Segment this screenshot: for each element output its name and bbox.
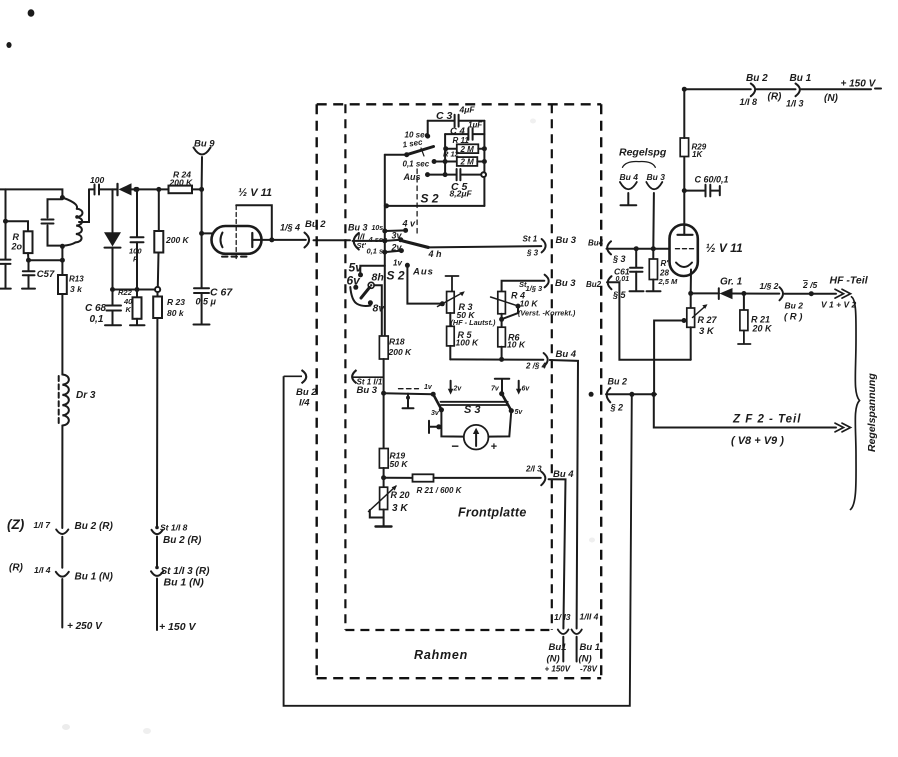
svg-text:C 68: C 68 [85,303,107,314]
svg-text:½ V 11: ½ V 11 [706,241,743,255]
svg-text:200 K: 200 K [388,347,413,357]
svg-text:2 M: 2 M [460,158,475,167]
svg-text:(N): (N) [547,654,560,665]
svg-text:R 21 / 600 K: R 21 / 600 K [417,486,463,495]
svg-text:1μF: 1μF [468,121,483,130]
svg-text:(Verst. -Kοrrekt.): (Verst. -Kοrrekt.) [518,309,576,318]
svg-text:1/§ 3: 1/§ 3 [526,284,544,293]
svg-text:C 60/0,1: C 60/0,1 [695,175,729,185]
svg-text:(Z): (Z) [7,517,25,532]
svg-text:St 1/I 8: St 1/I 8 [160,523,188,533]
svg-text:-78V: -78V [580,665,598,674]
svg-text:R 27: R 27 [698,315,718,325]
svg-text:2 /5: 2 /5 [802,280,817,290]
svg-text:1/§ 2: 1/§ 2 [760,281,779,291]
svg-text:( V8 + V9 ): ( V8 + V9 ) [731,435,784,447]
svg-text:Bu 2: Bu 2 [296,387,317,398]
svg-text:Gr. 1: Gr. 1 [720,277,743,288]
svg-text:4μF: 4μF [459,105,476,115]
svg-text:Bu 3: Bu 3 [357,385,378,396]
svg-text:0,5 μ: 0,5 μ [196,297,217,307]
svg-text:6v: 6v [347,274,362,288]
svg-text:HF -Teil: HF -Teil [830,275,869,287]
svg-text:2v: 2v [453,386,463,393]
svg-text:Bu2: Bu2 [586,280,602,289]
svg-text:Bu 1 (N): Bu 1 (N) [75,572,114,583]
svg-text:R 23: R 23 [167,297,185,307]
svg-text:§ 5: § 5 [612,290,627,300]
svg-text:3 K: 3 K [699,326,715,337]
svg-text:100: 100 [90,175,104,185]
svg-text:+ 150 V: + 150 V [159,621,196,633]
svg-text:10s: 10s [372,225,384,232]
svg-text:( R ): ( R ) [784,312,802,323]
svg-text:+: + [491,441,498,453]
svg-text:§ 3: § 3 [526,249,539,258]
svg-text:Aus: Aus [412,267,434,278]
svg-text:St 1: St 1 [523,235,538,244]
svg-text:1/§ 4: 1/§ 4 [280,223,300,233]
svg-text:1v: 1v [393,259,402,268]
svg-text:Bu 1: Bu 1 [790,73,812,84]
svg-text:(HF - Lautst.): (HF - Lautst.) [451,318,497,327]
svg-text:3v: 3v [431,410,440,417]
svg-text:C57: C57 [37,269,55,280]
svg-text:S 3: S 3 [464,404,481,416]
svg-text:C61: C61 [614,267,630,277]
svg-text:3v: 3v [392,231,403,241]
svg-text:−: − [451,439,459,454]
svg-text:10 K: 10 K [520,299,539,309]
svg-text:(N): (N) [579,654,592,665]
svg-text:0,01: 0,01 [616,276,630,283]
svg-text:Bu 1 (N): Bu 1 (N) [164,577,205,589]
svg-text:1/I 3: 1/I 3 [786,99,804,109]
svg-text:Bu4: Bu4 [588,238,604,247]
svg-text:Regelspg: Regelspg [619,147,667,159]
svg-text:3 k: 3 k [70,284,83,294]
svg-text:Bu 1: Bu 1 [580,642,601,653]
svg-text:½ V 11: ½ V 11 [238,187,272,199]
svg-text:8h: 8h [372,272,384,284]
svg-text:Bu 9: Bu 9 [194,139,215,150]
svg-text:2 /§ 4: 2 /§ 4 [525,362,547,371]
svg-text:Rahmen: Rahmen [414,648,468,662]
svg-text:20 K: 20 K [752,324,774,334]
svg-text:Z F 2 - Teil: Z F 2 - Teil [732,414,801,426]
svg-text:10 K: 10 K [507,340,526,350]
svg-text:4 v: 4 v [402,219,417,229]
svg-text:1/ I3: 1/ I3 [554,612,571,622]
svg-text:1/I 7: 1/I 7 [34,520,52,530]
svg-text:Bu 3: Bu 3 [556,235,577,246]
svg-text:1/I 8: 1/I 8 [740,97,758,107]
svg-text:§ 2: § 2 [610,403,624,413]
svg-text:R13: R13 [69,275,84,284]
svg-text:0,1 s: 0,1 s [367,247,384,256]
svg-text:2/I 3: 2/I 3 [525,465,542,474]
svg-text:1K: 1K [692,150,703,159]
svg-text:(R): (R) [9,563,24,574]
svg-text:R: R [13,232,20,242]
svg-text:R22: R22 [118,288,133,297]
svg-text:5v: 5v [349,261,364,275]
svg-text:+ 150V: + 150V [545,665,571,674]
svg-text:7v: 7v [491,386,500,393]
svg-text:Bu 3: Bu 3 [555,278,576,289]
svg-text:Bu 2: Bu 2 [608,377,628,387]
svg-text:200 K: 200 K [165,235,190,245]
svg-text:100 K: 100 K [456,338,480,348]
svg-text:(N): (N) [824,93,839,104]
svg-text:K: K [126,305,132,314]
svg-text:3 K: 3 K [392,503,408,514]
svg-text:2o: 2o [11,242,23,252]
svg-text:50 K: 50 K [390,459,409,469]
svg-text:(R): (R) [768,92,783,103]
svg-text:Bu 4: Bu 4 [556,349,577,360]
svg-text:Bu1: Bu1 [549,642,567,653]
svg-text:Aus: Aus [403,172,421,182]
svg-text:8,2μF: 8,2μF [450,189,473,199]
svg-text:1/II 4: 1/II 4 [580,612,599,622]
svg-text:Frontplatte: Frontplatte [458,506,527,520]
svg-text:5v: 5v [515,409,524,416]
svg-text:Bu 4: Bu 4 [553,469,574,480]
svg-text:Dr 3: Dr 3 [76,390,96,401]
svg-text:2 M: 2 M [460,145,475,154]
svg-text:4 sec: 4 sec [368,235,389,244]
svg-text:Bu 4: Bu 4 [620,172,639,182]
svg-text:+ 150 V: + 150 V [841,79,877,90]
svg-text:Bu 3: Bu 3 [647,172,666,182]
svg-text:I/4: I/4 [299,398,310,409]
svg-text:80 k: 80 k [167,308,185,318]
svg-text:4 h: 4 h [428,249,443,259]
svg-text:Bu 2 (R): Bu 2 (R) [75,521,114,532]
svg-text:0,1: 0,1 [90,314,104,325]
svg-text:R18: R18 [389,337,405,347]
svg-text:200 K: 200 K [169,178,194,188]
svg-text:R': R' [661,259,670,268]
svg-text:C 3: C 3 [436,110,453,122]
svg-text:S 2: S 2 [387,269,405,283]
svg-text:R 12: R 12 [443,149,460,158]
svg-text:V 1 + V 2: V 1 + V 2 [821,300,856,310]
svg-text:I/l: I/l [358,232,366,242]
svg-text:Bu 2: Bu 2 [785,301,804,311]
svg-text:2v: 2v [391,243,403,253]
svg-text:R 20: R 20 [391,490,410,500]
svg-text:S 2: S 2 [421,192,439,206]
svg-text:Bu 2 (R): Bu 2 (R) [163,535,202,546]
svg-text:Bu 2: Bu 2 [746,73,768,84]
svg-text:1v: 1v [424,384,433,391]
svg-text:6v: 6v [522,386,531,393]
svg-text:§ 3: § 3 [612,254,626,264]
svg-text:St': St' [357,241,367,250]
svg-text:Regelspannung: Regelspannung [866,373,878,452]
svg-text:0,1 sec: 0,1 sec [403,160,430,169]
svg-text:2,5 M: 2,5 M [658,277,679,286]
svg-text:8v: 8v [373,303,386,315]
svg-text:+ 250 V: + 250 V [67,621,103,632]
svg-text:1/I 4: 1/I 4 [34,565,51,575]
svg-text:St 1/I 3 (R): St 1/I 3 (R) [161,566,211,577]
